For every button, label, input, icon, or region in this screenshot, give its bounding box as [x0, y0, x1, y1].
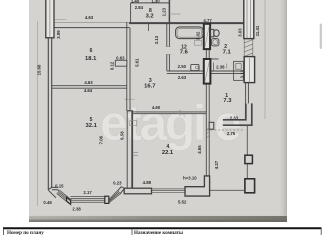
loggia right thin wall: [246, 125, 248, 190]
svg-text:0.12: 0.12: [110, 61, 115, 70]
bay right corner: [118, 187, 127, 195]
svg-text:4.63: 4.63: [85, 15, 94, 20]
wall corridor/rooms1-2 left: [205, 49, 207, 187]
wall rooms 6|5: [52, 85, 127, 87]
svg-text:5.52: 5.52: [178, 200, 187, 205]
watermark etagi: [100, 95, 242, 151]
svg-text:4.64: 4.64: [84, 88, 93, 93]
bottom wall room 4 left block: [124, 188, 151, 194]
svg-text:0.46: 0.46: [43, 200, 52, 205]
pillar box 1: [245, 155, 253, 163]
svg-text:2.84: 2.84: [135, 5, 144, 10]
thick corner wall (2.33): [223, 103, 252, 125]
room and area labels: [85, 8, 232, 156]
bay left slant window: [57, 190, 72, 204]
ext tick room5 right: [124, 98, 135, 100]
svg-text:7.06: 7.06: [99, 135, 104, 144]
extension line right (11.41): [264, 0, 266, 119]
svg-text:15.68: 15.68: [37, 64, 42, 75]
wall room6 | corridor: [126, 22, 128, 111]
svg-text:etagi: etagi: [100, 95, 204, 151]
radiator room4: [133, 152, 138, 154]
svg-text:1.40: 1.40: [131, 0, 140, 4]
balcony door/window section: [152, 189, 186, 192]
room12 left wall: [166, 24, 168, 47]
svg-text:3.13: 3.13: [239, 69, 244, 78]
bay right slant window: [109, 190, 121, 203]
svg-text:4.63: 4.63: [84, 80, 93, 85]
svg-text:4.65: 4.65: [197, 145, 202, 154]
svg-text:5.61: 5.61: [134, 58, 139, 67]
svg-text:6: 6: [90, 48, 93, 54]
bathtub: [176, 27, 203, 39]
svg-text:18.1: 18.1: [85, 56, 97, 62]
svg-text:1.23: 1.23: [162, 7, 167, 16]
svg-text:7.1: 7.1: [223, 50, 232, 56]
room2 niche stub: [206, 58, 218, 60]
bottom table: [3, 227, 322, 229]
right wall: window W2: [244, 0, 254, 39]
svg-text:h=3.10: h=3.10: [183, 175, 197, 180]
svg-text:2.63: 2.63: [178, 75, 187, 80]
shaft 1: [204, 24, 210, 49]
room 8 walls: [131, 2, 170, 4]
wall room3 | room4: [133, 111, 207, 113]
dashed line 2.75: [207, 129, 245, 131]
pillar box 2: [245, 179, 255, 193]
svg-text:0.23: 0.23: [113, 181, 122, 186]
shaft 2: [204, 59, 211, 84]
svg-text:4.27: 4.27: [214, 160, 219, 169]
svg-text:2.38: 2.38: [72, 207, 81, 212]
svg-text:4.88: 4.88: [143, 180, 152, 185]
bottom wall thick section (5.52): [185, 176, 210, 196]
svg-text:6.58: 6.58: [120, 131, 125, 140]
extension line left (15.68): [37, 21, 39, 206]
pilaster in room 6: [115, 60, 127, 66]
bathroom door mark: [195, 40, 202, 45]
corridor bottom wall (2.50): [167, 70, 245, 72]
window W1 left wall: [46, 0, 54, 38]
bay mullion left: [67, 197, 71, 204]
hatched wall between windows: [244, 39, 253, 57]
main top wall (rooms 12/2): [129, 22, 244, 24]
sink: [211, 39, 219, 46]
scan right edge shadow: [277, 0, 287, 222]
bay mullion right: [105, 196, 109, 203]
right wall: window W3: [244, 57, 254, 83]
svg-text:4: 4: [167, 144, 170, 150]
door jamb room 4: [130, 121, 137, 126]
loggia bottom thin line: [209, 189, 245, 191]
door stub corridor: [148, 24, 150, 31]
svg-text:Номер по плану: Номер по плану: [7, 230, 44, 235]
washing machine: [191, 64, 199, 70]
svg-text:3.03: 3.03: [237, 28, 242, 37]
svg-text:2.50: 2.50: [178, 64, 187, 69]
svg-text:16.7: 16.7: [144, 84, 155, 90]
svg-text:2.38: 2.38: [216, 64, 225, 69]
svg-text:3.99: 3.99: [56, 30, 61, 39]
2.38 dim marks room2: [213, 63, 215, 71]
stub below room1: [209, 122, 214, 129]
svg-text:7.3: 7.3: [223, 98, 232, 104]
hatch ticks room4 right wall: [207, 128, 210, 139]
toilet: [210, 29, 213, 36]
left wall: [47, 38, 49, 190]
svg-text:3.02: 3.02: [195, 31, 200, 40]
dimension labels horizontal: [43, 0, 238, 212]
svg-text:3.13: 3.13: [154, 35, 159, 44]
small dim ticks: 1.23 extension: [171, 13, 181, 15]
svg-text:32.1: 32.1: [86, 123, 98, 129]
wall room5 | room4: [126, 111, 128, 189]
right wall thin section: [245, 83, 247, 104]
svg-text:7.6: 7.6: [180, 50, 189, 56]
svg-text:4.60: 4.60: [152, 105, 161, 110]
bay window bottom-left: [48, 187, 58, 197]
svg-text:11.41: 11.41: [255, 25, 260, 36]
svg-text:1.30: 1.30: [151, 0, 160, 4]
scrollbar thumb: [320, 24, 322, 50]
svg-text:3.2: 3.2: [146, 14, 154, 20]
svg-text:2.75: 2.75: [227, 131, 236, 136]
scan photo background: [29, 0, 287, 222]
svg-text:2.33: 2.33: [230, 115, 239, 120]
svg-text:Назначение комнаты: Назначение комнаты: [134, 230, 183, 235]
bay horizontal window: [70, 197, 105, 203]
door jamb ticks room 12: [166, 46, 171, 48]
svg-text:4.77: 4.77: [203, 18, 212, 23]
scan bottom shadow: [29, 213, 287, 222]
ext line small top-left: [54, 18, 67, 20]
extension/dimension line top: [46, 21, 244, 23]
dimension labels vertical: [37, 7, 261, 169]
svg-text:0.15: 0.15: [55, 183, 64, 188]
room 6 top wall: [52, 27, 130, 29]
kitchen counter: [234, 61, 244, 80]
svg-text:2.17: 2.17: [83, 190, 92, 195]
svg-text:0.63: 0.63: [116, 56, 125, 61]
svg-text:22.1: 22.1: [162, 150, 174, 156]
